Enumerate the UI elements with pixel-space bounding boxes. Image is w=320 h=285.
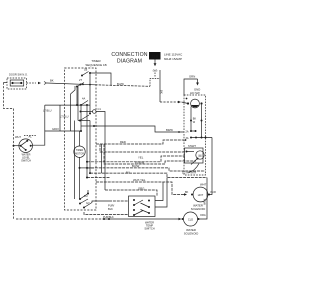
line rating label bbox=[164, 53, 183, 62]
start switch box bbox=[185, 145, 204, 163]
wire line to lid switch bbox=[160, 101, 188, 104]
temp switch right-side wires bbox=[155, 178, 167, 208]
timer box bbox=[65, 59, 107, 210]
timer motor bbox=[74, 131, 85, 199]
svg-text:BU: BU bbox=[84, 194, 88, 198]
timer lower wires to temp switch bbox=[84, 186, 157, 219]
svg-text:PUR: PUR bbox=[211, 191, 216, 194]
svg-text:LID SW: LID SW bbox=[190, 91, 200, 95]
water level switch bbox=[15, 134, 37, 162]
svg-text:BU/W: BU/W bbox=[117, 82, 124, 86]
lid switch bbox=[186, 98, 203, 108]
svg-text:21B: 21B bbox=[152, 55, 159, 59]
svg-text:DOOR SW N.O.: DOOR SW N.O. bbox=[9, 72, 28, 76]
left rail wire bbox=[4, 83, 14, 220]
hot water valve solenoid bbox=[185, 183, 216, 212]
timer contact 2 bbox=[76, 78, 84, 105]
svg-text:SEQUENCE 1B: SEQUENCE 1B bbox=[85, 63, 106, 67]
svg-text:SWITCH: SWITCH bbox=[144, 226, 154, 230]
wire right riser to hot valve bbox=[208, 138, 212, 195]
svg-text:START: START bbox=[188, 145, 196, 148]
svg-text:3A: 3A bbox=[186, 137, 189, 140]
svg-text:BU: BU bbox=[126, 171, 130, 175]
svg-text:RED: RED bbox=[120, 140, 126, 144]
svg-text:GRN: GRN bbox=[189, 75, 195, 79]
timer lower contacts bbox=[79, 193, 92, 209]
GRN ground bbox=[184, 75, 200, 96]
bottom rail to cold valve bbox=[16, 218, 182, 221]
timer internal wire A bbox=[71, 86, 76, 131]
svg-text:BR/W: BR/W bbox=[166, 128, 173, 132]
svg-text:1B: 1B bbox=[84, 68, 87, 72]
stair wire RED to start switch bbox=[96, 139, 186, 152]
stair wire BU bbox=[87, 171, 207, 178]
stair wire BU/W bbox=[87, 164, 205, 171]
node junction on timer edge bbox=[81, 125, 95, 127]
svg-text:W: W bbox=[193, 121, 196, 124]
svg-text:SOLENOID: SOLENOID bbox=[191, 207, 205, 211]
timer terminal C1 bbox=[80, 107, 106, 190]
timer contact y120 bbox=[78, 73, 91, 122]
svg-text:ORG: ORG bbox=[138, 186, 144, 190]
svg-text:2A: 2A bbox=[186, 131, 189, 134]
stair wire YEL bbox=[87, 156, 184, 162]
timer contact row y105 bbox=[45, 97, 90, 107]
svg-text:PUR/: PUR/ bbox=[108, 204, 114, 208]
svg-text:LT BLU: LT BLU bbox=[43, 109, 52, 113]
svg-text:SWITCH: SWITCH bbox=[21, 160, 31, 163]
svg-text:LINE 115VAC: LINE 115VAC bbox=[164, 53, 183, 57]
timer contact 1B bbox=[81, 68, 91, 77]
svg-text:WHT: WHT bbox=[15, 135, 21, 139]
svg-text:DIAGRAM: DIAGRAM bbox=[117, 58, 142, 64]
svg-text:60HZ 15AMP: 60HZ 15AMP bbox=[164, 57, 182, 61]
svg-text:CONNECTION: CONNECTION bbox=[111, 52, 147, 58]
svg-text:C1: C1 bbox=[98, 107, 102, 111]
motor terminals 2A 3A bbox=[186, 130, 213, 140]
wire cold valve right riser W/BK bbox=[199, 178, 208, 220]
wire W from plug down with arrow bbox=[153, 60, 158, 78]
svg-text:YEL: YEL bbox=[138, 156, 144, 160]
svg-text:1/2 HP MTR: 1/2 HP MTR bbox=[182, 171, 196, 175]
svg-text:GRAY: GRAY bbox=[52, 127, 59, 131]
wire: plug neutral to lid switch vertical bbox=[150, 70, 164, 102]
lid switch internal wires bbox=[190, 105, 203, 138]
svg-text:2T: 2T bbox=[79, 78, 82, 82]
svg-text:LT BLU: LT BLU bbox=[60, 115, 69, 119]
title CONNECTION DIAGRAM bbox=[111, 52, 147, 64]
door switch DOOR SW N.O. bbox=[7, 72, 28, 89]
stair wire PUR/W bbox=[104, 144, 196, 164]
wire BK door switch to timer bbox=[27, 79, 151, 87]
svg-text:WHT: WHT bbox=[200, 183, 207, 187]
svg-text:WHT-YEL: WHT-YEL bbox=[133, 178, 146, 182]
svg-text:AL: AL bbox=[29, 134, 33, 138]
svg-text:BU/W: BU/W bbox=[132, 164, 140, 168]
cold water valve solenoid bbox=[182, 212, 206, 236]
svg-text:BK: BK bbox=[160, 90, 164, 94]
timer internal verticals bbox=[75, 86, 82, 199]
svg-text:(W): (W) bbox=[153, 69, 158, 73]
svg-text:M: M bbox=[199, 154, 202, 158]
svg-text:BLK: BLK bbox=[108, 207, 113, 211]
water temp switch box bbox=[129, 196, 156, 230]
motor M bbox=[189, 151, 205, 173]
wire GRAY water level to timer bbox=[32, 105, 82, 145]
svg-text:ORG: ORG bbox=[200, 214, 206, 217]
svg-text:W/BK: W/BK bbox=[204, 198, 207, 205]
svg-text:HOT: HOT bbox=[198, 193, 204, 197]
svg-text:CLD: CLD bbox=[188, 218, 193, 222]
svg-text:BK: BK bbox=[185, 191, 189, 194]
wire door circuit riser bbox=[90, 73, 111, 86]
power cord plug block 21B bbox=[149, 52, 161, 60]
motor assembly box bbox=[184, 91, 206, 175]
motor label bbox=[182, 171, 196, 175]
svg-text:MOTOR: MOTOR bbox=[75, 152, 84, 155]
svg-text:SOLENOID: SOLENOID bbox=[184, 232, 198, 236]
stair wire WHT-YEL to hot valve bbox=[96, 178, 187, 196]
svg-text:4A: 4A bbox=[82, 97, 85, 101]
timer internal mesh wires bbox=[80, 105, 102, 179]
svg-text:BK: BK bbox=[50, 79, 54, 83]
wire to motor box upper bbox=[94, 126, 184, 133]
wire water level switch left lead bbox=[13, 145, 20, 147]
